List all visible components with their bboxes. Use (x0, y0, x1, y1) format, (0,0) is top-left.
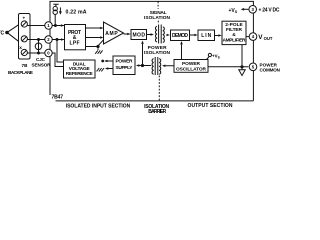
svg-text:SIGNAL: SIGNAL (150, 10, 167, 16)
svg-text:S: S (235, 10, 238, 14)
svg-text:POWER: POWER (260, 62, 278, 67)
svg-text:7B: 7B (22, 63, 29, 68)
svg-text:MOD: MOD (132, 32, 145, 38)
svg-text:AMPLIFIER: AMPLIFIER (223, 38, 247, 44)
svg-text:COMMON: COMMON (260, 68, 281, 73)
svg-text:S: S (218, 55, 220, 59)
svg-text:+ 24 V DC: + 24 V DC (259, 8, 280, 14)
svg-text:REFERENCE: REFERENCE (66, 71, 94, 77)
svg-text:AMP: AMP (105, 31, 118, 37)
svg-text:CJC: CJC (36, 57, 46, 62)
svg-text:ISOLATION: ISOLATION (144, 50, 171, 56)
svg-text:POWER: POWER (116, 59, 134, 65)
svg-text:x: x (19, 46, 22, 51)
svg-text:LIN: LIN (201, 33, 211, 39)
svg-text:&: & (232, 32, 236, 38)
svg-text:BACKPLANE: BACKPLANE (8, 70, 33, 75)
svg-text:OSCILLATOR: OSCILLATOR (176, 66, 207, 72)
svg-text:DEMOD: DEMOD (172, 33, 188, 39)
svg-text:SUPPLY: SUPPLY (116, 65, 134, 71)
svg-text:POWER: POWER (182, 61, 201, 67)
svg-text:SENSOR: SENSOR (32, 63, 52, 68)
svg-text:LPF: LPF (70, 41, 80, 47)
svg-text:0.22 mA: 0.22 mA (66, 10, 87, 16)
svg-text:OUT: OUT (264, 36, 273, 41)
svg-text:+: + (22, 16, 25, 21)
svg-text:BARRIER: BARRIER (148, 109, 166, 113)
svg-text:ISOLATED INPUT SECTION: ISOLATED INPUT SECTION (66, 103, 131, 109)
svg-text:V: V (258, 34, 263, 41)
svg-text:OUTPUT SECTION: OUTPUT SECTION (188, 103, 233, 109)
svg-text:ISOLATION: ISOLATION (144, 15, 171, 21)
svg-text:7B47: 7B47 (52, 95, 64, 101)
svg-text:TC: TC (0, 30, 5, 36)
svg-text:POWER: POWER (148, 45, 168, 51)
